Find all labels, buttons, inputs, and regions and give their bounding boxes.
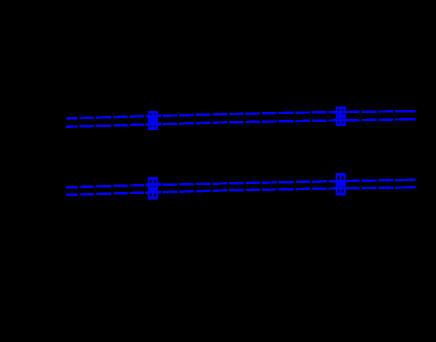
lower fit band: bottom dashed curve [66, 187, 415, 195]
data point marker C (lower band, left) [148, 177, 158, 199]
data point marker B (upper band, right) [336, 106, 346, 126]
data point marker A (upper band, left) [148, 111, 158, 130]
data point marker D (lower band, right) [336, 173, 346, 195]
lower fit band: top dashed curve [66, 180, 415, 188]
upper fit band: top dashed curve [66, 111, 415, 118]
solid line segments through markers (guaranteed protrusions) [145, 111, 415, 193]
upper fit band: bottom dashed curve [66, 119, 415, 127]
